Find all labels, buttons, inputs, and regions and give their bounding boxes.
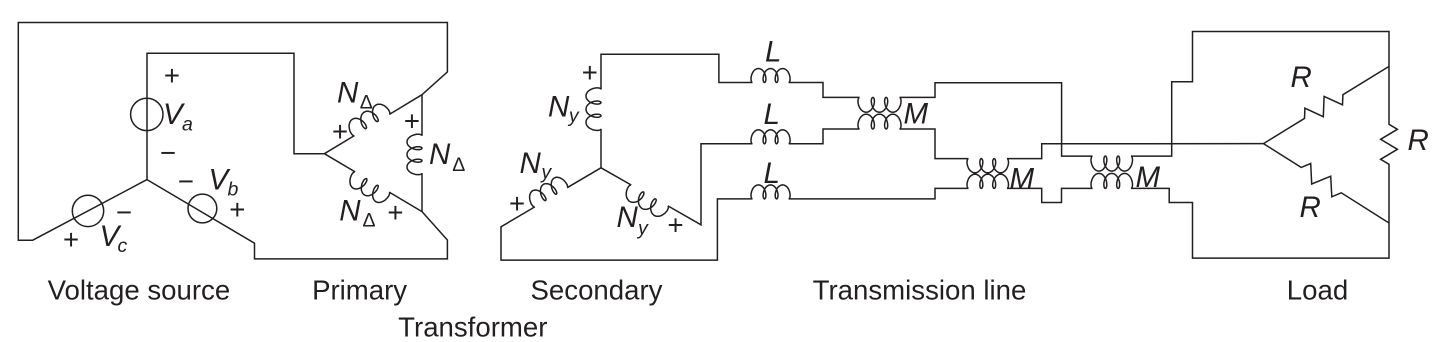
- svg-text:Δ: Δ: [360, 92, 373, 114]
- svg-text:+: +: [404, 105, 420, 136]
- svg-text:+: +: [63, 224, 79, 255]
- mutual inductor M3 lower coil: [1091, 173, 1133, 188]
- mutual inductor M2 lower coil: [967, 174, 1009, 188]
- wire row 3 into M2 lower: [789, 188, 969, 199]
- svg-text:Voltage source: Voltage source: [48, 275, 231, 306]
- svg-text:R: R: [1300, 191, 1321, 224]
- svg-text:+: +: [668, 209, 684, 240]
- voltage source Va circle: [131, 98, 163, 130]
- svg-text:Load: Load: [1287, 275, 1348, 306]
- svg-text:−: −: [178, 166, 194, 197]
- svg-text:L: L: [764, 157, 780, 190]
- winding N-delta right (primary): [407, 134, 422, 174]
- svg-text:N: N: [548, 91, 570, 124]
- wire delta bottom side right part: [389, 192, 422, 212]
- resistor R upper diagonal (load): [1264, 66, 1390, 143]
- svg-text:y: y: [636, 217, 649, 239]
- svg-text:a: a: [182, 114, 193, 136]
- wire phase a: M3 upper out, up and over top to load top-right vertex: [1131, 32, 1389, 157]
- mutual inductor M1 upper coil: [858, 97, 901, 112]
- wire secondary left branch upper part: [567, 168, 601, 188]
- svg-text:R: R: [1291, 61, 1312, 94]
- wire secondary phase a to transmission row 1: [601, 54, 752, 89]
- wire phase b: M1 lower out into M2 upper: [900, 129, 969, 159]
- wire row 2 into M1 lower: [789, 129, 860, 144]
- mutual inductor M1 lower coil: [858, 114, 901, 129]
- wire phase c: wye centre via Vc, left/top border to delta top-right vertex: [18, 23, 447, 241]
- svg-text:y: y: [539, 162, 552, 184]
- svg-text:+: +: [229, 194, 245, 225]
- svg-text:Δ: Δ: [363, 210, 376, 232]
- wire phase c: M3 lower out, down along bottom to load bottom-right vertex: [1131, 188, 1389, 258]
- svg-text:+: +: [387, 197, 403, 228]
- svg-text:N: N: [520, 147, 542, 180]
- svg-text:−: −: [160, 137, 176, 168]
- svg-text:N: N: [337, 76, 359, 109]
- mutual inductor M2 upper coil: [967, 159, 1009, 173]
- wire delta right side lower part: [421, 173, 423, 211]
- svg-text:+: +: [509, 188, 525, 219]
- svg-text:Secondary: Secondary: [531, 275, 663, 306]
- svg-text:−: −: [116, 197, 132, 228]
- svg-text:Δ: Δ: [452, 154, 465, 176]
- winding Ny right (secondary): [626, 185, 668, 216]
- wire secondary top branch lower part: [600, 129, 602, 168]
- svg-text:N: N: [429, 138, 451, 171]
- wire phase a: M1 upper out, up/over and down into M3 upper: [900, 83, 1093, 156]
- svg-text:Transmission line: Transmission line: [813, 275, 1027, 306]
- svg-text:Transformer: Transformer: [398, 311, 547, 342]
- wire secondary phase b to transmission row 2: [668, 144, 753, 225]
- svg-text:M: M: [904, 98, 929, 131]
- svg-text:+: +: [582, 57, 598, 88]
- wire delta top side upper part: [389, 95, 422, 115]
- wire phase a: wye centre to primary delta left vertex: [147, 53, 324, 179]
- svg-text:L: L: [765, 36, 781, 69]
- wire phase b: wye centre via Vb, bottom rail to delta bottom-right vertex: [147, 180, 447, 259]
- resistor R right vertical (load): [1381, 66, 1398, 223]
- mutual inductor M3 upper coil: [1091, 156, 1133, 171]
- svg-text:L: L: [764, 98, 780, 131]
- wire secondary phase c via bottom rail to transmission row 3: [501, 199, 752, 260]
- winding Ny top (secondary): [586, 88, 601, 130]
- svg-text:N: N: [617, 201, 639, 234]
- wire delta top side lower part: [324, 136, 354, 154]
- voltage source Vb circle: [188, 194, 217, 223]
- wire row 1 into M1 upper: [789, 83, 860, 98]
- wire delta bottom side left part: [324, 154, 355, 172]
- svg-text:N: N: [339, 194, 361, 227]
- inductor L row 2: [751, 130, 790, 144]
- svg-text:y: y: [567, 105, 580, 127]
- winding Ny left (secondary): [530, 177, 568, 207]
- wire delta right side upper part: [421, 95, 423, 136]
- svg-text:+: +: [164, 60, 180, 91]
- svg-text:R: R: [1408, 124, 1429, 157]
- resistor R lower diagonal (load): [1264, 144, 1390, 223]
- svg-text:M: M: [1136, 161, 1161, 194]
- wire phase c: M2 lower out, jog down-up into M3 lower: [1007, 188, 1093, 202]
- inductor L row 1: [751, 69, 790, 83]
- svg-text:c: c: [118, 235, 128, 257]
- svg-text:+: +: [332, 116, 348, 147]
- winding N-delta bottom (primary): [350, 172, 390, 203]
- svg-text:Primary: Primary: [312, 275, 407, 306]
- voltage source Vc circle: [72, 195, 103, 226]
- inductor L row 3: [751, 185, 790, 199]
- winding N-delta top (primary): [349, 104, 390, 136]
- wire phase b: M2 upper out, up and right to load left vertex: [1007, 144, 1264, 159]
- svg-text:M: M: [1010, 162, 1035, 195]
- wire secondary right branch upper part: [601, 168, 631, 185]
